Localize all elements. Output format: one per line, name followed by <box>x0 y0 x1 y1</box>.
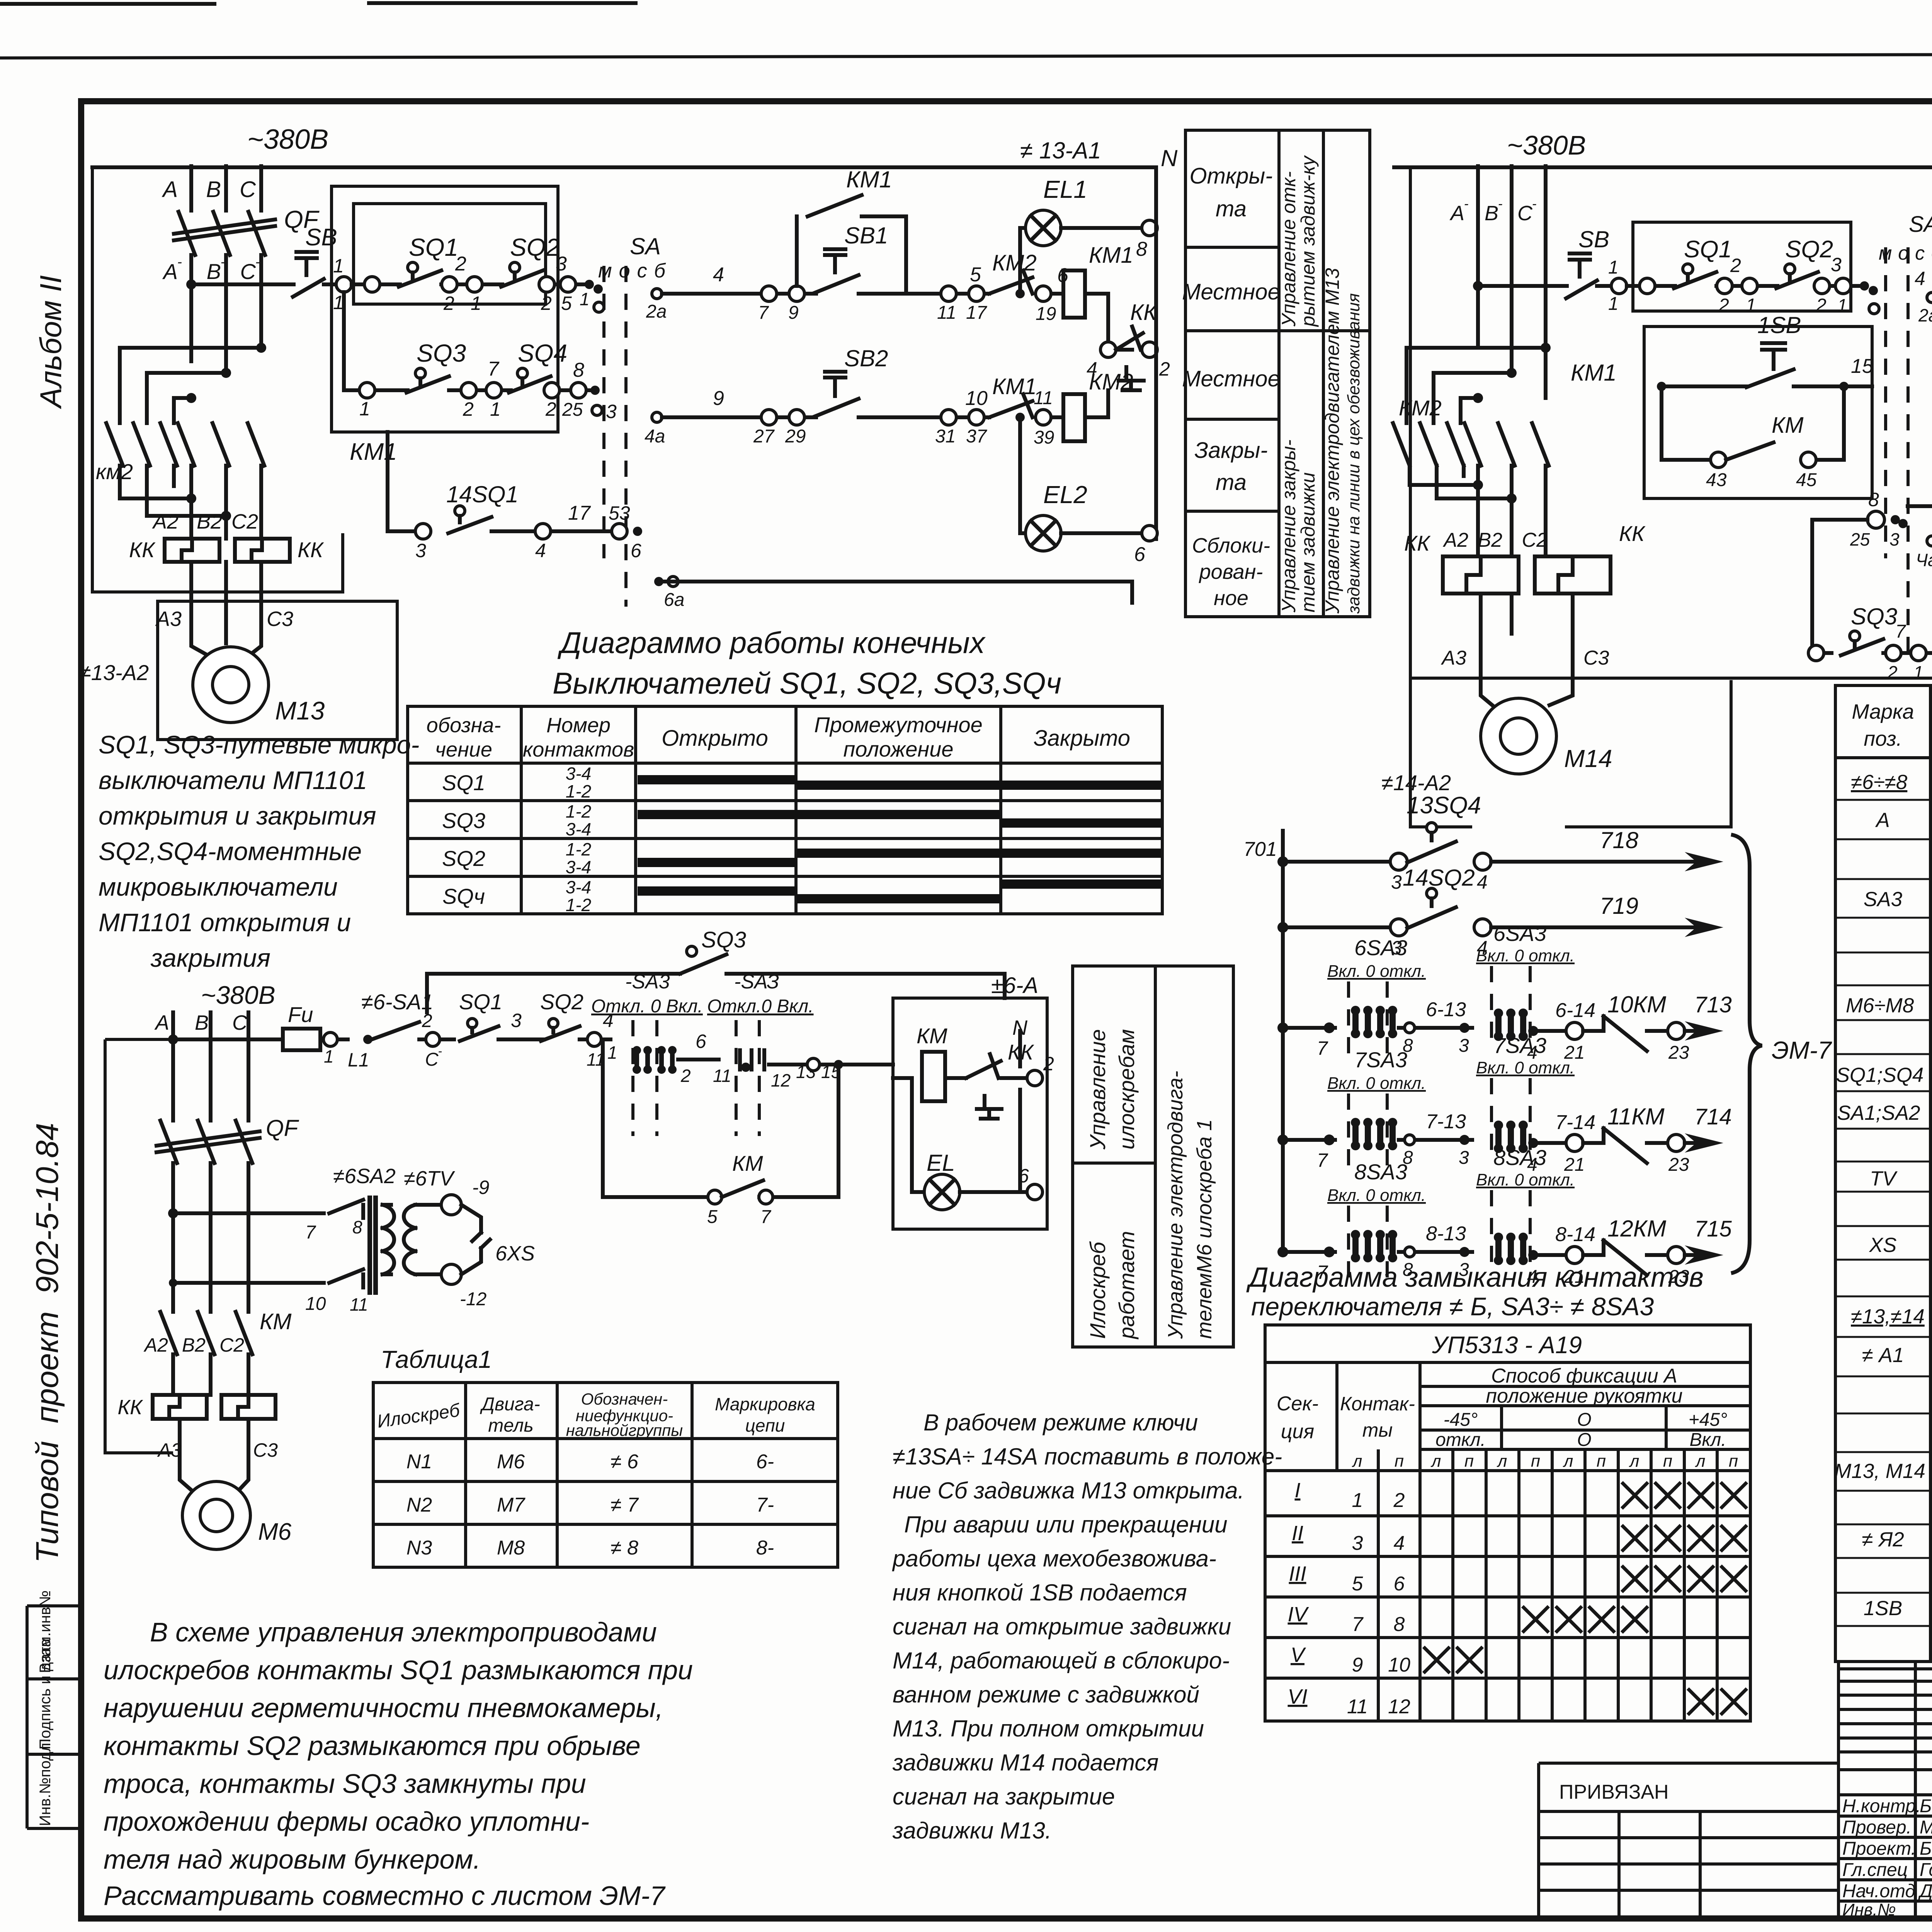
svg-text:Управление: Управление <box>1085 1029 1110 1150</box>
svg-text:1: 1 <box>1837 295 1847 315</box>
svg-text:нальнойгруппы: нальнойгруппы <box>566 1421 683 1439</box>
svg-text:работы цеха мехобезвожива-: работы цеха мехобезвожива- <box>892 1546 1216 1571</box>
svg-text:л: л <box>1352 1452 1362 1471</box>
svg-text:задвижки на линии в цех обезво: задвижки на линии в цех обезвоживания <box>1344 293 1363 614</box>
motor M13 <box>193 647 325 725</box>
wire control feed <box>191 282 294 286</box>
svg-text:открытия и закрытия: открытия и закрытия <box>99 801 376 830</box>
svg-text:1: 1 <box>1608 257 1619 278</box>
svg-text:7: 7 <box>1895 621 1906 642</box>
panel box outline <box>893 998 1047 1229</box>
svg-text:Управление электродвига-: Управление электродвига- <box>1164 1071 1187 1339</box>
svg-text:SQ2: SQ2 <box>540 990 583 1014</box>
svg-text:2а: 2а <box>1918 305 1932 325</box>
svg-text:В рабочем режиме ключи: В рабочем режиме ключи <box>923 1410 1198 1435</box>
thermal relay KK heater C <box>235 539 290 562</box>
svg-text:Вкл.: Вкл. <box>1689 1430 1726 1450</box>
svg-text:SQ2: SQ2 <box>1785 236 1833 263</box>
svg-text:3: 3 <box>1352 1532 1363 1554</box>
svg-text:3: 3 <box>1459 1036 1469 1056</box>
svg-text:III: III <box>1289 1562 1306 1585</box>
thermal relay KK heater A <box>1443 556 1519 594</box>
svg-text:М6÷М8: М6÷М8 <box>1846 994 1914 1017</box>
svg-text:7SА3: 7SА3 <box>1493 1033 1546 1058</box>
svg-text:закрытия: закрытия <box>150 944 270 972</box>
wire row2 feed <box>344 292 361 390</box>
svg-text:SB1: SB1 <box>844 223 888 248</box>
svg-text:КМ2: КМ2 <box>1399 396 1442 420</box>
coil KM1 <box>1063 270 1085 318</box>
svg-text:С3: С3 <box>1583 647 1609 669</box>
svg-text:ное: ное <box>1214 587 1248 610</box>
svg-text:мосб: мосб <box>598 260 672 282</box>
pushbutton SB <box>293 224 337 297</box>
svg-text:VI: VI <box>1287 1685 1307 1708</box>
svg-text:8: 8 <box>1868 489 1879 510</box>
svg-text:цепи: цепи <box>745 1415 785 1435</box>
svg-text:В2: В2 <box>182 1334 206 1356</box>
svg-text:КМ1: КМ1 <box>1571 360 1617 386</box>
svg-text:Номер: Номер <box>546 714 611 737</box>
svg-text:SQ3: SQ3 <box>417 339 466 367</box>
motor enclosure box <box>158 601 397 740</box>
wire row2 right rail <box>662 415 1108 419</box>
wires to motor <box>180 1419 248 1498</box>
svg-text:А: А <box>162 177 178 202</box>
svg-text:SQ2: SQ2 <box>510 233 560 261</box>
svg-text:-9: -9 <box>472 1177 489 1198</box>
svg-text:2: 2 <box>545 398 556 420</box>
svg-text:701: 701 <box>1243 838 1277 861</box>
wire row3 right rail <box>659 582 1132 603</box>
pushbutton SB2 <box>815 345 888 417</box>
svg-text:QF: QF <box>266 1115 299 1141</box>
svg-text:7: 7 <box>760 1207 772 1227</box>
thermal relay KK break contact <box>945 1040 1034 1119</box>
svg-text:контакты SQ2 размыкаются при: контакты SQ2 размыкаются при обрыве <box>104 1731 641 1761</box>
contactor KM2 main contacts <box>1393 423 1464 466</box>
svg-text:5: 5 <box>561 293 572 314</box>
svg-text:≠14-А2: ≠14-А2 <box>1381 770 1451 795</box>
svg-text:1SВ: 1SВ <box>1864 1597 1902 1620</box>
svg-text:N3: N3 <box>406 1537 432 1559</box>
svg-text:11: 11 <box>1034 388 1053 408</box>
svg-text:обозна-: обозна- <box>427 714 501 737</box>
svg-text:N1: N1 <box>406 1451 432 1473</box>
svg-text:714: 714 <box>1694 1104 1732 1129</box>
svg-text:SА3: SА3 <box>1864 888 1903 911</box>
svg-text:Марка: Марка <box>1852 700 1914 723</box>
svg-text:п: п <box>1729 1452 1738 1471</box>
svg-text:Маркировка: Маркировка <box>715 1394 815 1414</box>
svg-text:SQ1;SQ4: SQ1;SQ4 <box>1836 1064 1924 1087</box>
switch box SQ1/SQ2 <box>1633 222 1851 311</box>
svg-text:3: 3 <box>511 1010 522 1031</box>
svg-text:Откл.0 Вкл.: Откл.0 Вкл. <box>707 996 814 1017</box>
limit switches SQ3 SQ4 row <box>1808 506 1932 682</box>
row rulings <box>1835 800 1932 1626</box>
svg-text:Вкл. 0 откл.: Вкл. 0 откл. <box>1476 1170 1575 1189</box>
svg-text:работает: работает <box>1114 1231 1139 1340</box>
wire phase A <box>189 166 193 211</box>
junction on A1 <box>186 279 196 289</box>
svg-text:6-14: 6-14 <box>1555 999 1595 1022</box>
svg-text:≠6ТV: ≠6ТV <box>404 1167 456 1190</box>
svg-text:Инв.№подл.: Инв.№подл. <box>37 1738 54 1826</box>
contactor KM main contacts <box>160 1309 292 1354</box>
svg-text:9: 9 <box>713 387 724 410</box>
selector 7SA3 row to 11KM <box>1277 1033 1732 1175</box>
wire row3 feed <box>388 432 417 531</box>
svg-text:11: 11 <box>713 1066 731 1086</box>
svg-text:ция: ция <box>1281 1420 1314 1443</box>
svg-text:2: 2 <box>463 398 474 420</box>
sheet top border line <box>0 53 1932 58</box>
svg-text:мосб: мосб <box>1879 242 1932 264</box>
svg-text:2: 2 <box>455 253 466 275</box>
svg-text:Н.контр.: Н.контр. <box>1842 1796 1921 1816</box>
reversing contactor KM2 jumpers <box>96 343 266 484</box>
row 719: limit switch 14SQ2 <box>1277 865 1723 959</box>
svg-text:3-4: 3-4 <box>566 877 591 897</box>
svg-text:6SА3: 6SА3 <box>1354 935 1407 960</box>
svg-text:6ХS: 6ХS <box>495 1242 535 1265</box>
svg-text:3: 3 <box>415 540 426 561</box>
svg-text:3: 3 <box>606 401 617 422</box>
wire junction to KK row <box>1108 294 1132 350</box>
svg-text:4: 4 <box>1394 1532 1405 1554</box>
svg-text:ния кнопкой 1SВ подается: ния кнопкой 1SВ подается <box>893 1580 1187 1605</box>
annex box: binding <box>1539 1763 1838 1918</box>
svg-text:1-2: 1-2 <box>566 781 591 801</box>
svg-text:С2: С2 <box>231 510 258 533</box>
svg-text:Обозначен-: Обозначен- <box>581 1390 668 1408</box>
wires into motor <box>1481 594 1573 705</box>
svg-text:V: V <box>1291 1643 1306 1667</box>
svg-text:выключатели МП1101: выключатели МП1101 <box>99 766 367 794</box>
svg-text:рован-: рован- <box>1199 560 1263 583</box>
svg-text:КМ1: КМ1 <box>992 374 1037 399</box>
wire row1 exit <box>543 282 591 286</box>
svg-text:5: 5 <box>970 264 981 286</box>
svg-text:микровыключатели: микровыключатели <box>99 872 338 901</box>
svg-text:3: 3 <box>1889 529 1900 549</box>
svg-text:Местное: Местное <box>1182 366 1280 391</box>
svg-text:п: п <box>1663 1452 1672 1471</box>
svg-text:Сек-: Сек- <box>1277 1393 1318 1415</box>
svg-text:Таблица1: Таблица1 <box>381 1345 492 1373</box>
svg-text:≠13SА÷ 14SА поставить в положе: ≠13SА÷ 14SА поставить в положе- <box>893 1444 1282 1469</box>
svg-text:1: 1 <box>1352 1489 1363 1512</box>
thermal relay KK heater C <box>1535 556 1611 594</box>
wire phase A1 <box>1476 166 1480 348</box>
junction on A1 <box>1473 281 1483 291</box>
wire N inside box <box>1018 1031 1022 1192</box>
svg-text:Диаграммо работы конечных: Диаграммо работы конечных <box>557 626 986 660</box>
svg-text:10: 10 <box>965 387 988 410</box>
wire row1 <box>352 282 400 286</box>
node 1 <box>1611 278 1627 294</box>
thermal relay KK break contact <box>1087 300 1170 390</box>
svg-text:п: п <box>1597 1452 1606 1471</box>
node 4a <box>652 412 662 422</box>
svg-text:В2: В2 <box>1478 529 1502 551</box>
svg-text:8-14: 8-14 <box>1555 1223 1595 1246</box>
svg-text:719: 719 <box>1600 893 1638 919</box>
svg-text:10: 10 <box>305 1294 326 1314</box>
limit switch SQ1 <box>459 990 502 1041</box>
svg-text:EL2: EL2 <box>1043 481 1087 509</box>
svg-text:-12: -12 <box>460 1289 486 1310</box>
svg-text:N2: N2 <box>406 1494 432 1516</box>
svg-text:Гольцман: Гольцман <box>1920 1860 1932 1880</box>
svg-text:I: I <box>1294 1479 1300 1502</box>
svg-text:SQ3: SQ3 <box>701 927 746 952</box>
svg-text:1: 1 <box>607 1043 617 1063</box>
svg-text:≠ Я2: ≠ Я2 <box>1862 1528 1904 1551</box>
svg-text:1: 1 <box>490 398 501 420</box>
svg-text:N: N <box>1161 145 1178 171</box>
net #14-A1 feed line <box>1394 165 1932 169</box>
limit switch SQ2 <box>501 233 560 287</box>
svg-text:КМ: КМ <box>917 1024 947 1048</box>
wire row2 <box>367 388 408 392</box>
svg-text:А2: А2 <box>152 510 179 533</box>
svg-text:теля над жировым бункеро: теля над жировым бункером. <box>104 1844 481 1874</box>
svg-text:В схеме управления электропр: В схеме управления электроприводами <box>150 1617 657 1647</box>
svg-text:ТV: ТV <box>1870 1167 1898 1190</box>
svg-text:7-14: 7-14 <box>1555 1111 1595 1134</box>
svg-text:А: А <box>154 1011 169 1034</box>
svg-text:При аварии или прекращении: При аварии или прекращении <box>904 1512 1228 1537</box>
svg-text:10КМ: 10КМ <box>1607 992 1666 1017</box>
svg-text:14SQ2: 14SQ2 <box>1403 865 1475 891</box>
svg-text:8: 8 <box>1136 238 1147 260</box>
svg-text:Откры-: Откры- <box>1189 163 1272 189</box>
limit switch 14SQ1 <box>415 481 519 561</box>
svg-text:715: 715 <box>1694 1216 1732 1242</box>
svg-text:11: 11 <box>350 1294 368 1315</box>
svg-text:1: 1 <box>1746 295 1756 316</box>
svg-text:ты: ты <box>1362 1419 1393 1441</box>
svg-text:Закры-: Закры- <box>1194 438 1268 463</box>
svg-text:илоскребов контакты SQ1 разм: илоскребов контакты SQ1 размыкаются при <box>104 1655 693 1685</box>
svg-text:М13, М14: М13, М14 <box>1834 1460 1925 1483</box>
svg-text:27: 27 <box>753 426 775 447</box>
coil KM2 <box>1063 394 1085 441</box>
svg-text:л: л <box>1695 1452 1706 1471</box>
circuit enclosure <box>1410 167 1932 678</box>
limit switch PSQ3 jumper over table <box>427 927 1005 1012</box>
svg-text:ванном режиме с задвижкой: ванном режиме с задвижкой <box>893 1682 1199 1708</box>
svg-text:8-: 8- <box>756 1537 774 1559</box>
svg-text:6: 6 <box>696 1031 706 1052</box>
svg-text:С3: С3 <box>267 607 293 631</box>
svg-text:Провер.: Провер. <box>1842 1817 1912 1838</box>
selector SA3 contact group 2 <box>707 971 841 1136</box>
node 6a <box>654 577 663 586</box>
svg-text:SQ2: SQ2 <box>442 846 485 871</box>
svg-text:12: 12 <box>771 1070 791 1090</box>
svg-text:53: 53 <box>609 502 630 524</box>
svg-text:Вкл. 0 откл.: Вкл. 0 откл. <box>1476 1058 1575 1077</box>
limit switch SQ2 <box>540 990 583 1041</box>
svg-text:п: п <box>1531 1452 1540 1471</box>
svg-text:КМ: КМ <box>260 1309 292 1334</box>
svg-text:КМ1: КМ1 <box>1089 243 1133 268</box>
svg-text:IV: IV <box>1287 1603 1309 1626</box>
svg-text:О: О <box>1577 1410 1591 1430</box>
svg-text:10: 10 <box>1388 1654 1410 1676</box>
svg-text:Вкл. 0 откл.: Вкл. 0 откл. <box>1327 1074 1426 1093</box>
svg-text:2: 2 <box>443 293 454 314</box>
svg-text:Ча: Ча <box>1916 550 1932 570</box>
node 2a <box>1927 293 1932 303</box>
svg-text:КМ1: КМ1 <box>350 439 397 465</box>
node 1 <box>336 277 352 292</box>
svg-text:≠ 8: ≠ 8 <box>611 1537 638 1559</box>
svg-text:Типовой проект 902-5-10.84: Типовой проект 902-5-10.84 <box>30 1123 65 1563</box>
lamp EL2 <box>1020 417 1148 551</box>
svg-text:тием задвижки: тием задвижки <box>1297 472 1319 612</box>
svg-text:л: л <box>1629 1452 1639 1471</box>
svg-text:6-13: 6-13 <box>1426 998 1466 1021</box>
svg-text:М7: М7 <box>497 1494 526 1516</box>
svg-text:та: та <box>1216 196 1247 221</box>
wire phases below QF <box>191 255 261 373</box>
svg-text:4: 4 <box>1477 871 1488 893</box>
selector 8SA3 row to 12KM <box>1277 1145 1732 1287</box>
svg-text:11: 11 <box>1347 1696 1368 1718</box>
svg-text:рытием задвиж-ку: рытием задвиж-ку <box>1297 155 1319 327</box>
svg-text:ЭМ-7: ЭМ-7 <box>1772 1036 1832 1064</box>
svg-text:3-4: 3-4 <box>566 857 591 877</box>
svg-text:л: л <box>1497 1452 1507 1471</box>
svg-text:тель: тель <box>488 1415 533 1436</box>
svg-text:29: 29 <box>785 426 806 447</box>
svg-text:8SА3: 8SА3 <box>1354 1160 1407 1184</box>
svg-text:нарушении герметичности пне: нарушении герметичности пневмокамеры, <box>104 1693 663 1723</box>
svg-text:II: II <box>1292 1522 1303 1545</box>
svg-text:А2: А2 <box>1442 529 1468 551</box>
svg-text:КК: КК <box>1404 531 1431 555</box>
wire row1 right rail <box>662 292 1108 296</box>
svg-text:5: 5 <box>1352 1573 1364 1595</box>
svg-text:≠6SА2: ≠6SА2 <box>333 1165 396 1188</box>
svg-text:С2: С2 <box>1522 529 1548 551</box>
limit switch SQ4 <box>509 339 567 393</box>
svg-text:≠ А1: ≠ А1 <box>1862 1344 1904 1367</box>
svg-text:45: 45 <box>1796 470 1817 490</box>
limit switch SQ3 <box>406 339 466 393</box>
svg-text:7: 7 <box>488 358 500 380</box>
svg-text:ПРИВЯЗАН: ПРИВЯЗАН <box>1559 1781 1669 1803</box>
svg-text:М14: М14 <box>1564 745 1612 772</box>
svg-text:С: С <box>232 1011 248 1034</box>
svg-text:Вкл. 0 откл.: Вкл. 0 откл. <box>1327 962 1426 981</box>
svg-text:8: 8 <box>352 1217 362 1237</box>
svg-text:713: 713 <box>1694 992 1732 1017</box>
svg-text:УП5313 - А19: УП5313 - А19 <box>1432 1332 1582 1359</box>
limit switch SQ2 <box>1776 236 1833 288</box>
svg-text:положение: положение <box>843 737 953 761</box>
svg-text:М6: М6 <box>258 1519 292 1545</box>
svg-text:Сблоки-: Сблоки- <box>1192 534 1270 557</box>
svg-text:Контак-: Контак- <box>1340 1393 1415 1415</box>
svg-text:39: 39 <box>1034 427 1054 448</box>
svg-text:Илоскреб: Илоскреб <box>1085 1241 1110 1339</box>
svg-text:SQ3: SQ3 <box>1851 604 1897 629</box>
limit switch SQ1 <box>1674 236 1732 288</box>
svg-text:сигнал на открытие задвижки: сигнал на открытие задвижки <box>893 1614 1231 1639</box>
svg-text:12: 12 <box>1388 1696 1410 1718</box>
svg-text:Управление отк-: Управление отк- <box>1278 171 1299 327</box>
contactor KM1 aux contact <box>797 167 906 294</box>
svg-text:≠6-SA1: ≠6-SA1 <box>361 990 433 1014</box>
svg-text:2: 2 <box>541 293 552 314</box>
svg-text:откл.: откл. <box>1435 1430 1486 1450</box>
svg-text:17: 17 <box>966 303 988 323</box>
contactor KM aux contact <box>1662 386 1844 490</box>
svg-text:~380В: ~380В <box>201 981 276 1009</box>
svg-text:положение рукоятки: положение рукоятки <box>1486 1385 1682 1407</box>
svg-text:SQ1: SQ1 <box>459 990 502 1014</box>
svg-text:6: 6 <box>631 540 641 561</box>
svg-text:2: 2 <box>1718 295 1729 316</box>
svg-text:SQч: SQч <box>442 884 485 908</box>
svg-text:SB: SB <box>1578 226 1609 252</box>
wire row1 mid <box>441 282 502 286</box>
svg-text:Закрыто: Закрыто <box>1034 726 1130 751</box>
svg-text:Мосеенко: Мосеенко <box>1920 1817 1932 1838</box>
svg-text:2: 2 <box>1887 662 1898 682</box>
svg-text:1: 1 <box>1913 662 1923 682</box>
pushbutton SB <box>1566 226 1609 298</box>
svg-text:Fu: Fu <box>288 1002 313 1027</box>
svg-text:М13: М13 <box>275 696 325 725</box>
svg-text:25: 25 <box>562 400 583 420</box>
svg-text:11КМ: 11КМ <box>1607 1104 1665 1129</box>
svg-text:7: 7 <box>1317 1037 1328 1059</box>
svg-text:1: 1 <box>333 255 344 277</box>
svg-text:+45°: +45° <box>1689 1410 1728 1430</box>
wire block outline <box>105 1039 173 1453</box>
svg-text:5: 5 <box>707 1207 718 1227</box>
svg-text:А3: А3 <box>155 607 182 631</box>
contactor KM1 main contacts <box>1464 423 1549 466</box>
svg-text:2: 2 <box>680 1066 691 1086</box>
svg-text:2: 2 <box>1043 1053 1054 1075</box>
svg-text:О: О <box>1577 1430 1591 1450</box>
inner switch box <box>354 204 546 304</box>
svg-text:SB2: SB2 <box>844 345 888 371</box>
svg-text:4: 4 <box>713 264 724 286</box>
svg-text:1SB: 1SB <box>1757 312 1801 338</box>
svg-text:КМ2: КМ2 <box>992 250 1037 276</box>
wire into box <box>893 1076 912 1080</box>
svg-text:Открыто: Открыто <box>662 726 768 751</box>
svg-text:А2: А2 <box>143 1334 168 1356</box>
svg-text:15: 15 <box>1851 355 1874 378</box>
svg-text:4: 4 <box>535 540 546 561</box>
svg-text:19: 19 <box>1036 304 1056 324</box>
svg-text:п: п <box>1464 1452 1474 1471</box>
motor M14 <box>1481 698 1612 774</box>
lamp EL1 <box>1020 175 1148 294</box>
svg-text:7-13: 7-13 <box>1426 1111 1466 1133</box>
transformer #6TV with #6SA2 switch <box>329 1165 535 1315</box>
svg-text:1: 1 <box>1608 294 1619 314</box>
